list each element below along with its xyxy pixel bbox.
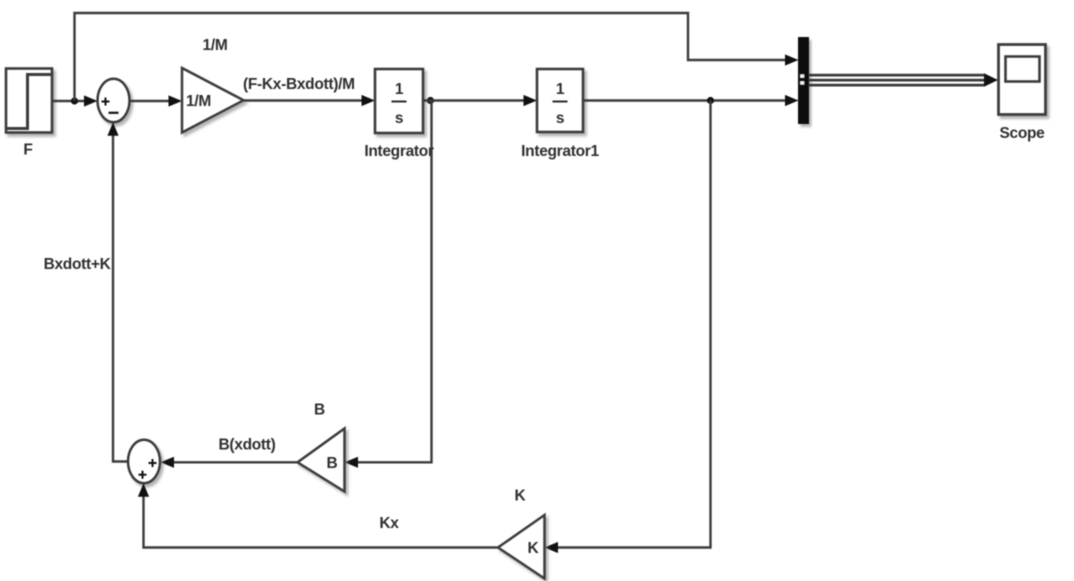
gain B <box>298 429 345 492</box>
svg-text:1/M: 1/M <box>203 37 228 54</box>
svg-text:B: B <box>314 402 325 419</box>
svg-text:1: 1 <box>556 81 565 98</box>
node at Integrator output <box>427 97 434 104</box>
svg-text:(F-Kx-Bxdott)/M: (F-Kx-Bxdott)/M <box>243 76 355 93</box>
sum S2 <box>128 440 160 483</box>
svg-text:s: s <box>556 110 564 127</box>
wire x to gain K <box>545 101 711 554</box>
gain 1/M <box>182 68 244 133</box>
svg-text:Kx: Kx <box>379 515 399 532</box>
svg-text:Bxdott+K: Bxdott+K <box>44 256 112 273</box>
svg-text:1: 1 <box>395 81 404 98</box>
node at x displacement line <box>707 97 714 104</box>
node junction at step output <box>71 97 78 104</box>
svg-text:Integrator: Integrator <box>364 143 434 160</box>
mux <box>799 38 809 124</box>
svg-text:1/M: 1/M <box>186 93 211 110</box>
svg-text:Integrator1: Integrator1 <box>521 143 599 160</box>
step source F <box>6 69 52 133</box>
svg-text:Scope: Scope <box>999 125 1045 142</box>
wire Integrator1 to mux <box>583 95 799 106</box>
wire step to sum <box>52 95 98 106</box>
wire Integrator to Integrator1 <box>423 95 537 106</box>
scope <box>999 45 1046 115</box>
svg-text:F: F <box>23 142 32 159</box>
wire xdot to gain B <box>345 101 432 468</box>
wire sum2 to sum1 (feedback) <box>107 122 128 461</box>
svg-text:K: K <box>528 540 540 557</box>
wire mux to scope (vector triple line) <box>809 73 999 86</box>
svg-text:s: s <box>395 110 403 127</box>
gain K <box>498 515 545 579</box>
wire sum1 to gain 1/M <box>130 95 183 106</box>
wire gain B to sum2 <box>161 457 298 468</box>
integrator block <box>375 69 423 133</box>
svg-text:B(xdott): B(xdott) <box>219 437 276 454</box>
wire gain K to sum2 <box>138 483 498 547</box>
svg-text:K: K <box>515 488 527 505</box>
svg-text:B: B <box>327 455 338 472</box>
wire feedthrough F to mux (top) <box>75 13 799 101</box>
integrator1 block <box>537 69 583 132</box>
wire gain 1/M to Integrator <box>244 95 376 106</box>
sum S1 <box>98 79 130 122</box>
